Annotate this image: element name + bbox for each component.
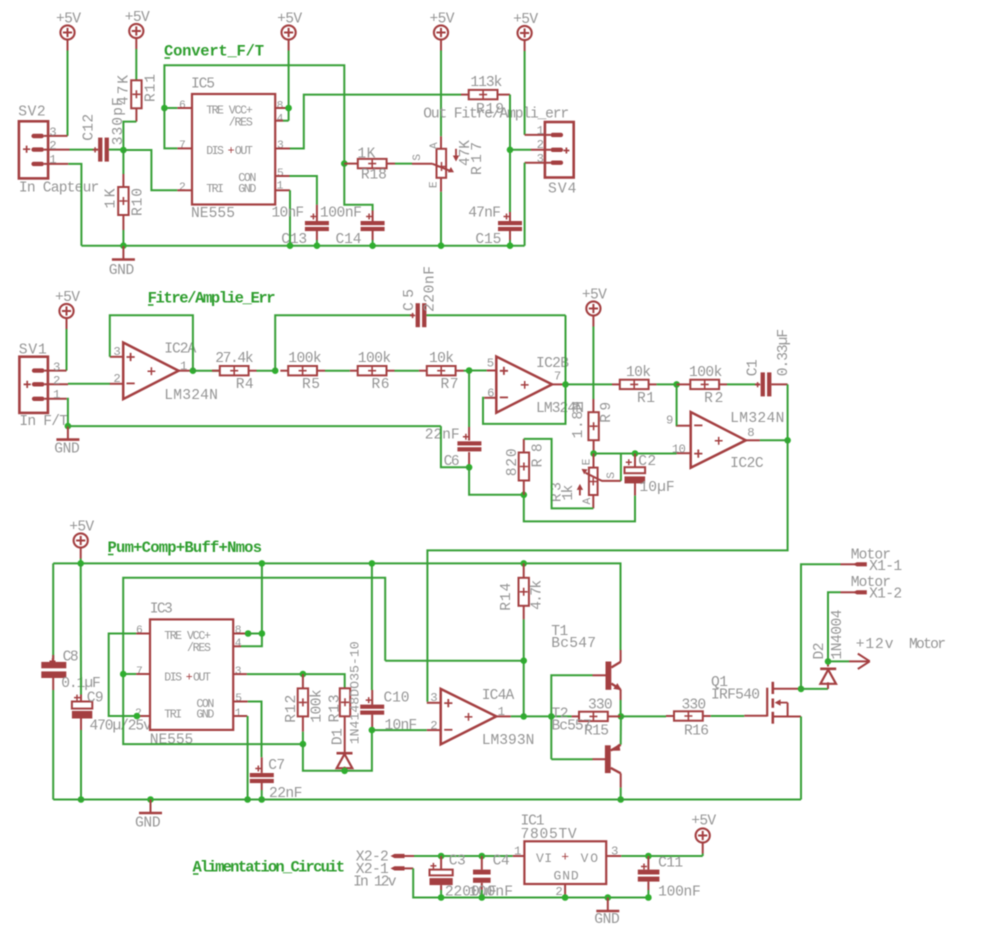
resistor R19 113k [469,75,510,118]
resistor R12 100k [284,674,326,732]
wire IC5 OUT up to R19 line [290,95,461,149]
node C4 top [479,853,486,860]
svg-text:/RES: /RES [229,116,253,129]
label Convert_F/T [164,43,264,61]
svg-text:R7: R7 [441,377,459,393]
svg-text:22nF: 22nF [425,427,460,443]
node TRI junction [134,713,141,720]
svg-text:TRE: TRE [206,104,224,117]
wire node to pin10 of IC2C [594,453,677,455]
wire base riser T1/T2 [551,675,592,759]
svg-text:TRI: TRI [206,183,224,196]
node TRE junction [161,105,168,112]
gnd rail section1 [81,245,524,247]
svg-text:470µ/25v: 470µ/25v [90,718,153,734]
node R8 bottom [521,492,528,499]
pin X2-2 [356,849,414,865]
svg-text:Bc557: Bc557 [552,719,592,735]
pin X1-2 [851,575,902,602]
transistor T2 Bc557 [552,706,621,787]
supply +5V (above SV2 pin3) [56,12,81,51]
node C12/R10/R11/TRI junction [120,147,127,154]
wire node to TRI of IC5 [123,150,177,190]
svg-text:C15: C15 [475,232,501,248]
ic IC3 NE555 [135,602,248,749]
wire C9 branch [80,563,82,694]
wire R19 right down to SV4 pin2 and C15 [509,95,511,212]
svg-text:C14: C14 [336,232,362,248]
node R10/rail [120,242,127,249]
svg-text:1: 1 [180,359,187,373]
supply +5V (above R9) [582,288,607,327]
node R18 left junction [341,160,348,167]
svg-text:TRE: TRE [164,630,182,643]
resistor R18 1K [344,146,395,183]
wire +5V down to R17 [440,51,442,137]
svg-text:R16: R16 [684,724,709,740]
wire SV1 pin2 to IC2A pin2 [68,383,110,385]
svg-text:6: 6 [179,100,186,112]
node R4/R5/C5 [272,367,279,374]
svg-text:TRI: TRI [164,708,182,721]
svg-text:10: 10 [672,443,686,457]
svg-text:1k: 1k [561,484,577,500]
node C11 top [645,853,652,860]
svg-text:SV4: SV4 [548,182,577,198]
svg-text:C7: C7 [268,758,285,774]
node R7/IC2B pin5/C6 [466,367,473,374]
wire IC2B feedback pin6 [483,384,566,424]
node R9 bottom [590,450,597,457]
svg-text:1: 1 [498,705,505,719]
svg-text:47nF: 47nF [468,205,501,221]
svg-text:C10: C10 [384,690,410,706]
svg-text:A: A [429,142,441,149]
wire IC2A feedback to pin3 [110,315,193,371]
svg-text:Convert_F/T: Convert_F/T [164,43,264,61]
wire node down to DIS [164,108,177,148]
svg-text:LM324N: LM324N [164,388,218,404]
node R1/R2/pin9 [673,381,680,388]
svg-text:10nF: 10nF [272,205,305,221]
svg-text:C12: C12 [82,114,98,141]
wire drain node to D2 anode [801,688,828,690]
wire IC5 pin1 down to rail [289,190,291,245]
capacitor C11 100nF [638,855,701,900]
resistor R16 330 [621,698,711,740]
svg-text:1N4148DO35-10: 1N4148DO35-10 [348,641,363,744]
svg-text:2: 2 [113,372,120,386]
connector SV1 [19,343,68,430]
wire +5V to IC5 pin8 [288,51,290,121]
ground GND [54,426,80,458]
node pin4/8 riser [259,630,266,637]
svg-text:/RES: /RES [187,642,211,655]
svg-text:D2: D2 [812,643,828,660]
wire +5V to SV4 pin1 [524,51,526,135]
svg-text:330pF: 330pF [111,97,127,145]
wire +5V rail [80,559,82,564]
wire +5V to R11 [135,49,137,81]
wire +5V to SV1 pin3 [66,329,68,371]
svg-text:+5V: +5V [691,814,716,830]
svg-text:GND: GND [238,183,256,196]
resistor R13 10k [328,641,363,744]
svg-text:10µF: 10µF [639,480,674,496]
wire R3 wiper up to node line [620,454,622,481]
wire X2-2 to IC1 VI [414,855,513,857]
node C3 top [438,853,445,860]
wire rail to C10 [371,563,373,690]
wire pin8 to pin4 [283,120,289,122]
capacitor C9 470u/25v [72,690,152,734]
svg-text:+5V: +5V [56,12,81,28]
node output/T-bases [548,713,555,720]
svg-text:100nF: 100nF [658,884,701,900]
wire SV4 pin3 down to rail [524,163,526,246]
svg-text:GND: GND [594,912,620,928]
capacitor C12 330pF [82,97,128,161]
svg-text:3: 3 [53,360,60,374]
wire node down to C6 [468,371,470,428]
node IC5 pin8 [285,105,292,112]
resistor R10 1K [104,174,147,230]
wire DIS-line to R14 node [385,660,524,662]
svg-text:Bc547: Bc547 [551,636,596,652]
svg-text:DIS: DIS [164,671,182,684]
resistor R11 47K [117,74,160,122]
svg-text:Fitre/Amplie_Err: Fitre/Amplie_Err [148,289,276,307]
wire X2-1 down to gnd rail [413,868,648,897]
supply +5V (above SV1) [55,290,80,329]
svg-text:+5V: +5V [55,290,80,306]
wire node to IC4A pin2 [372,729,427,731]
svg-text:NE555: NE555 [191,206,235,222]
svg-text:R12: R12 [284,695,300,723]
svg-text:3: 3 [113,345,120,359]
capacitor C14 100nF [320,205,385,248]
trimmer R3 1k [550,454,621,509]
wire R17 bottom to rail [440,192,442,246]
svg-text:C4: C4 [493,853,510,869]
capacitor C13 10nF [272,205,329,249]
node IC1 gnd [562,894,569,901]
svg-text:A: A [582,498,594,505]
resistor R2 100k [677,365,727,407]
resistor R4 27.4k [193,351,257,393]
svg-text:IC2C: IC2C [730,456,764,472]
svg-text:R2: R2 [704,391,723,407]
svg-text:100nF: 100nF [469,884,513,900]
capacitor C10 10nF [360,690,417,734]
svg-text:R14: R14 [499,582,515,610]
svg-text:6: 6 [136,625,143,637]
resistor R14 4.7k [499,560,546,619]
svg-text:R13: R13 [328,694,344,722]
node R12 bottom [300,741,307,748]
svg-text:10k: 10k [429,351,454,367]
svg-text:IC2A: IC2A [164,341,196,357]
svg-text:C8: C8 [63,649,79,665]
svg-text:C13: C13 [281,232,307,248]
svg-text:GND: GND [135,816,161,832]
svg-text:100k: 100k [358,351,392,367]
rail gnd section3 [53,799,801,801]
svg-text:OUT: OUT [193,671,211,684]
wire R11 bottom to node [123,122,136,150]
ic IC5 NE555 [177,77,290,222]
wire node down to R10 [122,150,124,174]
wire C12 to node [109,149,124,151]
svg-text:+5V: +5V [69,520,94,536]
label Pum+Comp+Buff+Nmos [108,539,263,557]
wire emitters T2 [620,716,622,744]
svg-text:5: 5 [487,356,494,370]
svg-text:9: 9 [666,413,673,427]
svg-text:3: 3 [277,140,284,152]
resistor R5 100k [280,351,325,393]
op-amp IC2A [110,341,218,404]
wire drain up to X1-1 [801,564,841,689]
svg-text:8: 8 [235,625,242,637]
svg-text:3: 3 [49,125,56,139]
svg-text:VO: VO [581,851,599,866]
node IC2B output [562,381,569,388]
svg-text:NE555: NE555 [150,733,194,749]
svg-text:100k: 100k [310,689,326,723]
wire T1 emitter to R15 node [620,700,622,716]
resistor R6 100k [350,351,395,393]
resistor R1 10k [566,365,657,407]
wire R18 to R17 wiper [395,163,412,165]
svg-text:IRF540: IRF540 [711,688,760,704]
wire DIS loop top [123,578,385,674]
svg-text:OUT: OUT [235,145,253,158]
svg-text:100nF: 100nF [320,205,362,221]
wire C2 bottom to R8 node [524,495,635,522]
wire VO to +5V [621,855,702,857]
wire Q1 source down to rail [800,717,802,800]
supply +5V (above SV4) [513,12,538,51]
wire node down to D1 anode line [303,730,372,771]
svg-text:R1: R1 [637,391,655,407]
svg-text:C1: C1 [746,359,762,376]
node gnd symbol [605,894,612,901]
svg-text:Motor: Motor [909,637,946,653]
wire pin8/pin4 to rail [241,563,262,646]
node IC3 pin8 [245,630,252,637]
diode D1 1N4148 [331,716,353,771]
svg-text:1: 1 [514,844,521,858]
node R12 top [300,671,307,678]
svg-text:DIS: DIS [206,145,224,158]
wire C8 branch [52,563,54,659]
resistor R9 1.8M [571,399,615,454]
svg-text:1K: 1K [357,146,375,162]
wire IC3 gnd-side to R12 node [123,674,303,744]
capacitor C4 100nF [469,853,513,900]
svg-text:8: 8 [277,100,284,112]
svg-text:R4: R4 [236,377,254,393]
resistor R8 820 [505,439,547,495]
op-amp IC2B [484,356,584,417]
svg-text:Out Fitre/Ampli_err: Out Fitre/Ampli_err [423,107,569,123]
wire C6 node down to R8 node [469,467,524,495]
capacitor C5 220nF [402,266,439,327]
supply +5V (alimentation) [691,814,716,854]
svg-text:330: 330 [588,698,613,714]
svg-text:GND: GND [196,708,214,721]
svg-text:820: 820 [505,448,521,476]
svg-text:E: E [429,181,441,188]
svg-text:+5V: +5V [582,288,607,304]
ic IC1 7805TV [514,814,621,900]
capacitor C15 47nF [468,205,522,248]
node C2 top [632,450,639,457]
wire R8 top to R3 bottom [524,439,594,509]
svg-text:IC3: IC3 [150,602,173,618]
svg-text:1: 1 [53,388,60,402]
supply +5V (above R11) [125,10,150,49]
wire C1 right down to IC2C output node [787,384,789,440]
node Q1 drain [798,686,805,693]
svg-text:6: 6 [487,387,494,401]
svg-text:+: + [186,671,193,684]
svg-text:2: 2 [53,374,60,388]
svg-text:0.33µF: 0.33µF [776,329,792,376]
node D2 cathode [825,658,832,665]
svg-text:R18: R18 [361,168,387,184]
wire SV2 pin1 down to rail [68,164,81,246]
node C6 bottom [466,464,473,471]
svg-text:2: 2 [555,885,562,899]
rail +5V horizontal [53,563,620,650]
wire IC3 pin1 down to rail [247,716,249,800]
svg-text:10nF: 10nF [385,718,418,734]
svg-text:In 12v: In 12v [353,874,397,890]
svg-text:27.4k: 27.4k [215,351,254,367]
wire IC4A output [511,715,572,717]
svg-text:+: + [228,145,235,158]
wire IC3 OUT to R12/R13 [247,674,345,688]
wire CON to C7 [248,702,262,758]
svg-text:10k: 10k [626,365,651,381]
svg-text:7: 7 [179,140,186,152]
svg-text:4: 4 [235,638,242,650]
svg-text:Alimentation_Circuit: Alimentation_Circuit [193,859,346,877]
svg-text:+5V: +5V [430,12,455,28]
svg-text:+5V: +5V [125,10,150,26]
svg-text:GND: GND [554,869,579,884]
svg-text:Motor: Motor [851,575,891,591]
ground GND [109,246,135,279]
wire SV2 pin2 to C12 [70,149,96,151]
svg-text:C11: C11 [658,855,683,871]
wire R10 to gnd rail [122,230,124,246]
diode D2 1N4004 [812,609,846,689]
svg-text:+: + [561,849,569,864]
svg-text:5: 5 [277,168,284,180]
capacitor C3 2200uF [430,853,497,900]
supply +5V (above R17) [430,12,455,51]
svg-text:5: 5 [235,693,242,705]
wire C5 down to output [565,315,567,384]
supply +12v arrow [828,637,946,669]
wire X1-2 branch [828,592,841,661]
svg-text:1: 1 [235,708,242,720]
wire node up to C5 [275,315,410,371]
capacitor C1 0.33uF [746,329,793,396]
wire junction down to C14 [344,164,372,211]
svg-text:330: 330 [682,698,707,714]
svg-text:VI: VI [536,851,552,866]
svg-text:LM324N: LM324N [730,411,784,427]
svg-text:4.7k: 4.7k [530,580,546,610]
resistor R7 10k [419,351,464,393]
label Fitre/Amplie_Err [148,289,276,307]
svg-text:C3: C3 [449,853,466,869]
wire SV1 pin1 to gnd node [67,399,68,426]
svg-text:Motor: Motor [851,548,891,564]
svg-text:1: 1 [537,124,544,138]
svg-text:IC5: IC5 [191,77,215,93]
node IC2A output [190,367,197,374]
wire node down to IC2C pin9 [676,384,678,425]
op-amp IC2C [666,411,784,472]
capacitor C6 22nF [425,427,482,470]
svg-text:GND: GND [54,442,80,458]
svg-text:2: 2 [537,138,544,152]
node IC2C output [784,437,791,444]
wire +5V to SV2 pin3 [67,51,69,136]
svg-text:C2: C2 [638,454,656,470]
svg-text:D1: D1 [331,728,347,745]
svg-text:Pum+Comp+Buff+Nmos: Pum+Comp+Buff+Nmos [108,539,263,557]
svg-text:S: S [606,472,618,479]
svg-text:+12v: +12v [856,637,894,653]
svg-text:In F/T: In F/T [19,414,68,430]
wire node to IC2B pin5 [469,370,487,372]
label Alimentation_Circuit [193,859,346,877]
svg-text:SV1: SV1 [19,343,47,359]
svg-text:7: 7 [136,666,143,678]
node D1 anode [341,768,348,775]
wire IC2C output down and left to IC4A pin3 [427,440,787,701]
svg-text:R11: R11 [144,74,160,102]
wire IC5 pin5 to C13 [290,176,317,205]
svg-text:GND: GND [109,263,135,279]
svg-text:R17: R17 [470,142,486,175]
connector SV2 [18,104,99,196]
node C10 bottom [369,727,376,734]
svg-text:3: 3 [235,666,242,678]
supply +5V (above IC5 pin8) [277,12,302,51]
svg-text:IC4A: IC4A [482,688,515,704]
svg-text:3: 3 [537,152,544,166]
svg-text:In Capteur: In Capteur [19,181,99,197]
op-amp IC4A LM393N [427,688,535,749]
svg-text:100k: 100k [689,365,723,381]
svg-text:2: 2 [49,139,56,153]
supply +5V (Pum section) [69,520,94,559]
wire +5V down to R9 [592,327,594,400]
capacitor C2 10uF [625,454,675,497]
ground GND (section3) [135,796,162,831]
trimmer R17 47K [412,136,486,192]
node R15 right / emitters [618,713,625,720]
wire T2 collector to rail [620,788,622,800]
pin X1-1 [851,548,903,575]
